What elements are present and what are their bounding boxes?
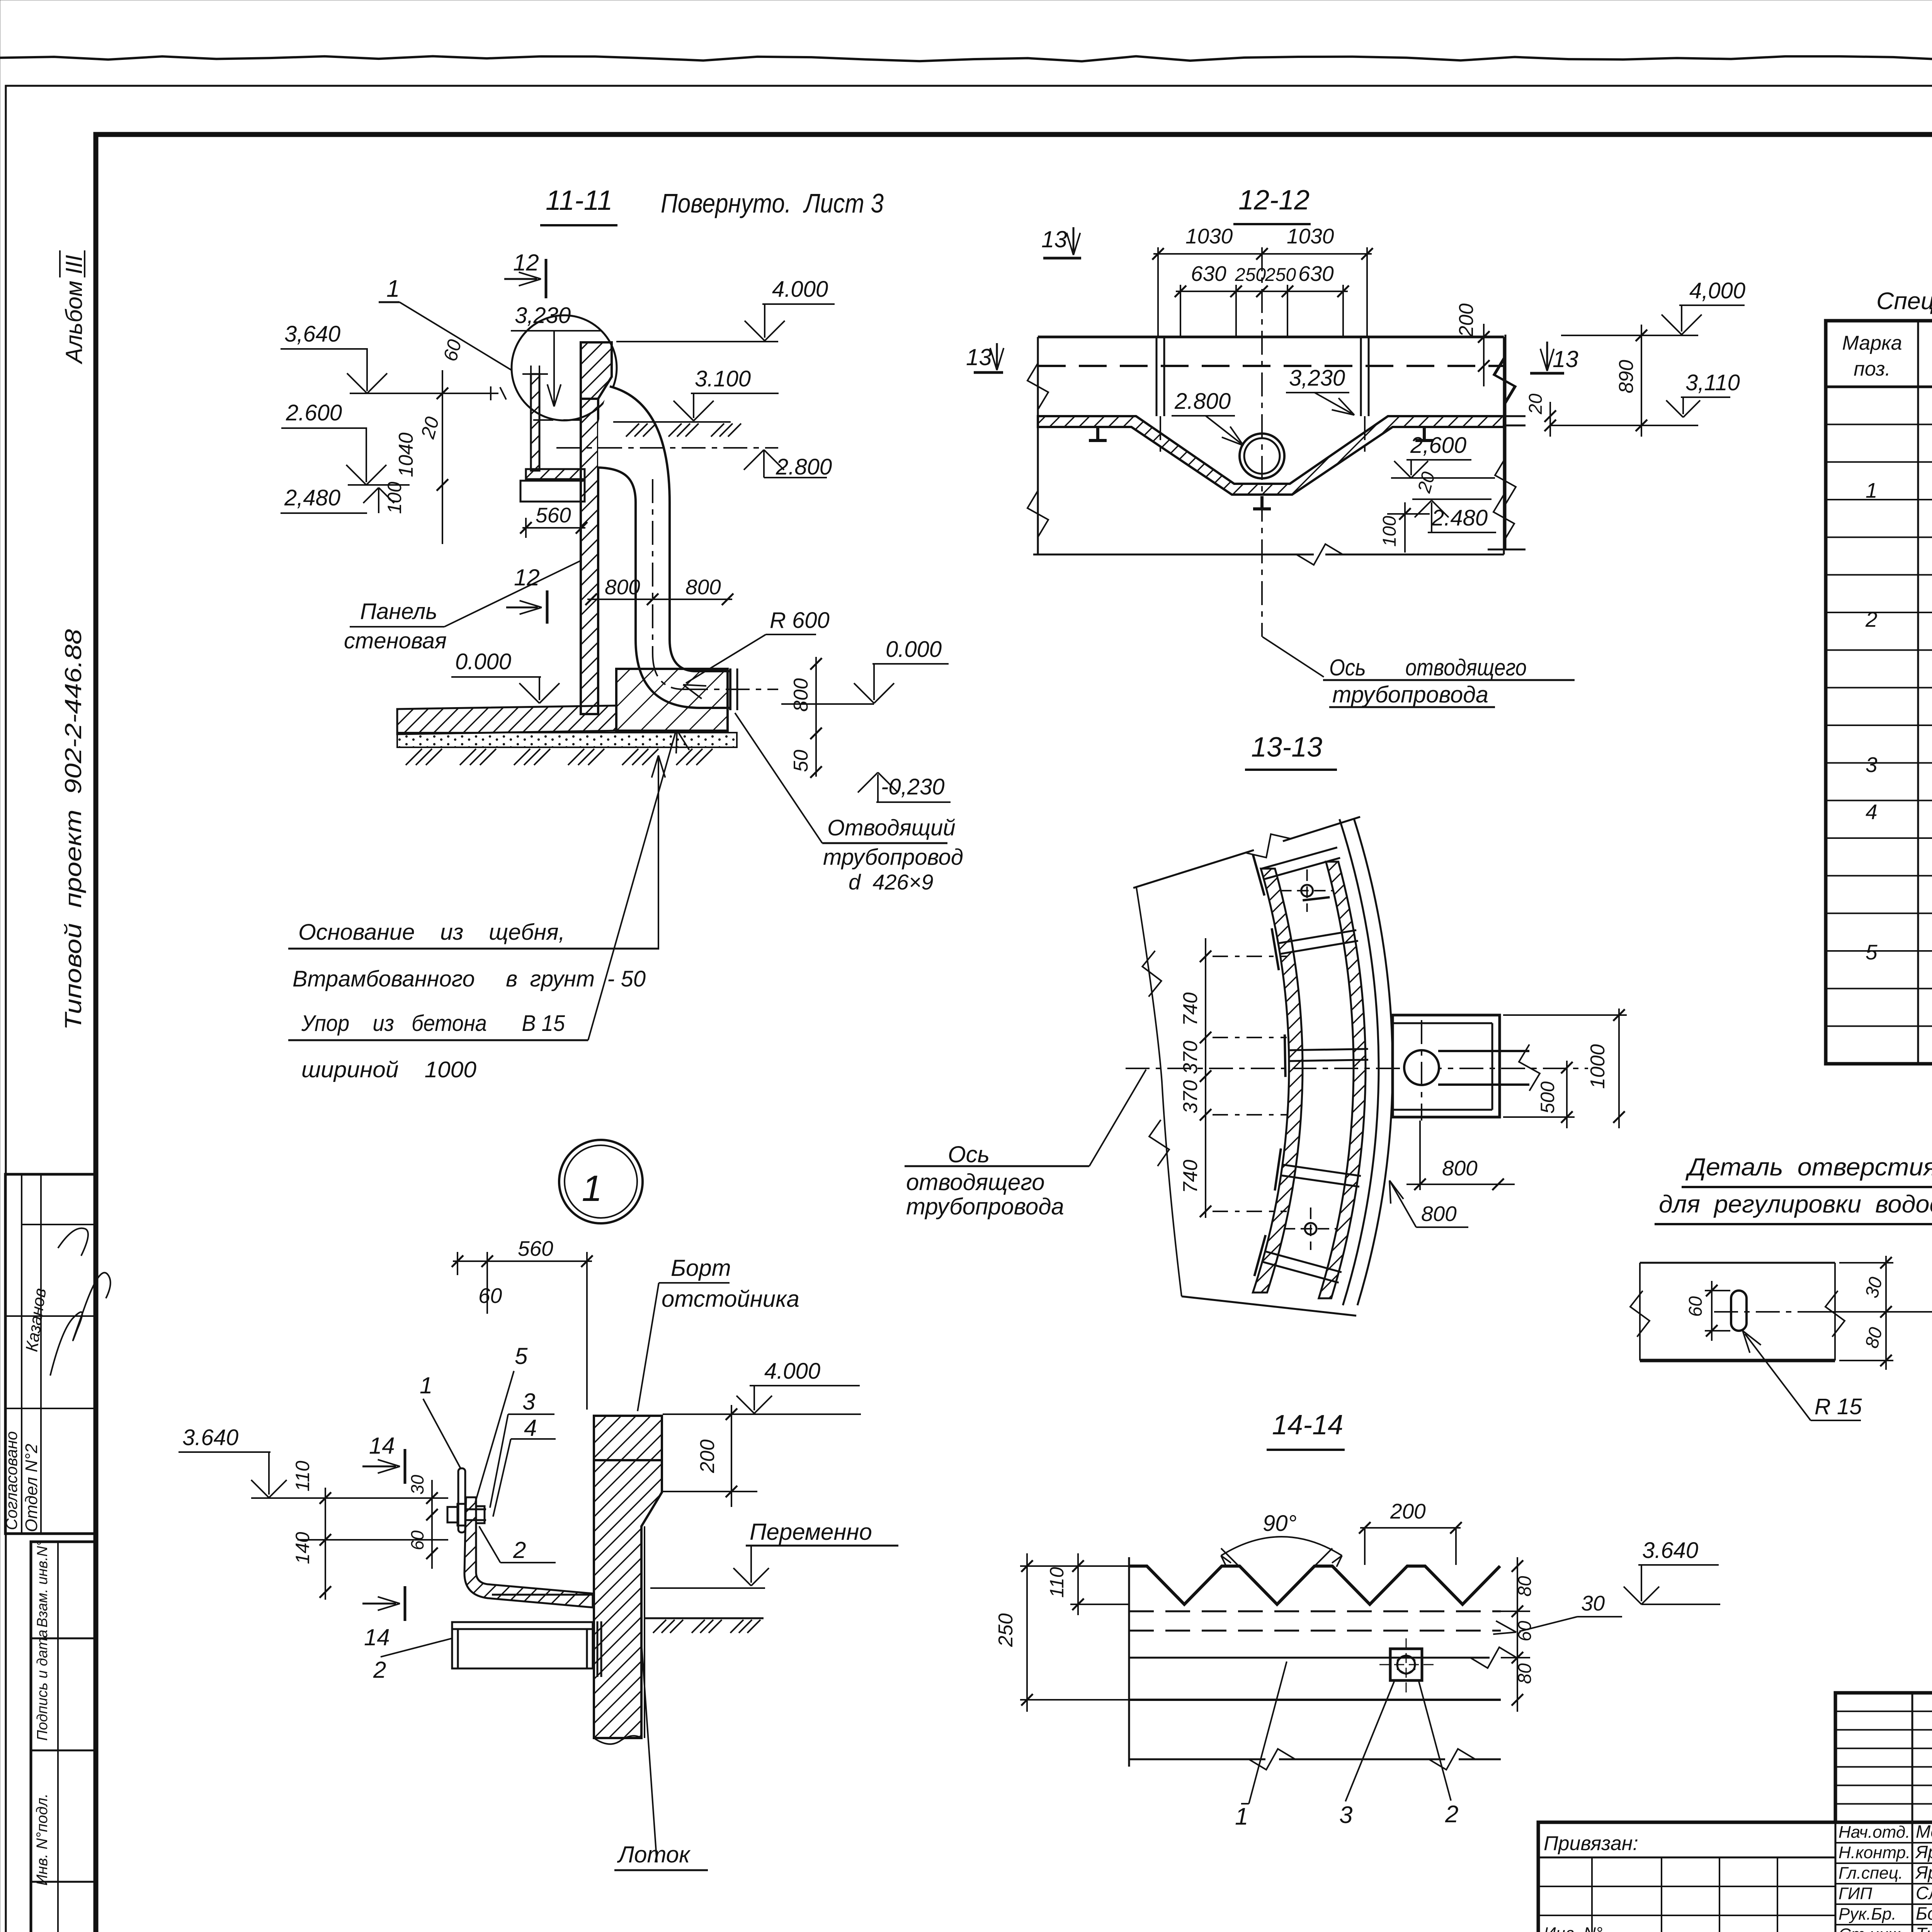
trough lower support plate [520,481,585,502]
leader from shchebnya note to base layer [658,758,659,949]
svg-text:Гл.спец.: Гл.спец. [1838,1864,1903,1883]
svg-text:Тюрина: Тюрина [1916,1924,1932,1932]
svg-text:Нач.отд.: Нач.отд. [1838,1823,1910,1842]
detail 1 lower support band [452,1622,593,1629]
svg-text:13: 13 [1041,226,1067,252]
svg-text:4.000: 4.000 [772,277,828,302]
detail hole left edge break [1639,1263,1641,1361]
svg-text:3: 3 [1339,1802,1352,1828]
detail 1 curb top block hatched [594,1416,662,1460]
svg-text:90°: 90° [1263,1511,1297,1536]
14-14 bolt hex and circle [1397,1656,1415,1673]
spec table row lines [1826,423,1932,425]
13-13 wall outer face hatched band [1319,862,1366,1298]
spec table column lines [1917,321,1919,1064]
pipe axis 2.800 centerline upper [556,447,778,449]
dim 630 250 250 630 [1176,291,1348,292]
water level dashed line in trough [533,419,580,421]
svg-text:890: 890 [1615,360,1638,393]
svg-text:1: 1 [1866,478,1878,502]
svg-text:4.000: 4.000 [764,1359,820,1384]
14-14 left edge line [1128,1557,1130,1767]
svg-text:3: 3 [1866,753,1878,777]
svg-text:100: 100 [1379,516,1400,547]
14-14 plate bottom line [1129,1699,1501,1701]
svg-text:250: 250 [1235,265,1266,285]
svg-text:13: 13 [966,344,992,370]
svg-text:250: 250 [1265,265,1296,285]
detail 1 channel below [452,1629,593,1668]
svg-text:Привязан:: Привязан: [1544,1832,1638,1855]
svg-text:30: 30 [1581,1591,1605,1615]
svg-text:5: 5 [1866,940,1878,964]
approval signature squiggle [50,1273,111,1376]
cross ticks at glass top [522,373,548,375]
12-12 right slab stubs [1504,415,1526,417]
svg-text:2.800: 2.800 [1174,389,1231,414]
svg-text:1: 1 [420,1372,432,1398]
svg-text:800: 800 [605,575,640,599]
detail hole slot [1731,1291,1747,1331]
svg-text:0.000: 0.000 [455,649,511,674]
12-12 centerline vertical [1261,247,1263,637]
svg-text:Ярошенко: Ярошенко [1915,1842,1932,1862]
svg-text:200: 200 [696,1439,719,1473]
svg-text:Ярошенко: Ярошенко [1915,1862,1932,1883]
pipe bell mouth white fill [598,386,670,502]
pipe centerline vertical [652,479,653,653]
title block upper small table [1835,1693,1932,1822]
svg-text:800: 800 [1421,1202,1457,1226]
12-12 right wall edge [1505,335,1507,549]
svg-text:140: 140 [292,1532,313,1564]
glass plate (pos.1) on wall [531,374,539,471]
svg-text:740: 740 [1179,992,1202,1026]
12-12 left edge with breaks [1037,337,1039,554]
svg-text:3.640: 3.640 [182,1425,238,1450]
svg-text:2.800: 2.800 [776,454,832,480]
svg-text:4,000: 4,000 [1689,278,1745,303]
14-14 sawtooth weir edge [1129,1566,1500,1604]
svg-text:Согласовано: Согласовано [2,1431,20,1530]
svg-text:Инв. N°подл.: Инв. N°подл. [34,1793,51,1886]
dim 800 800 on 11-11 [587,599,732,600]
12-12 left vertical joint pair [1156,337,1158,416]
ground hatching under base [406,749,422,765]
pipe bell inner curve [598,468,636,502]
12-12 pipe circle in trough [1240,434,1284,478]
svg-text:60: 60 [1685,1296,1706,1317]
dim 1030 1030 [1153,253,1372,255]
svg-text:1030: 1030 [1287,224,1334,248]
svg-text:Отдел N°2: Отдел N°2 [22,1444,41,1532]
detail 1 wall bottom break [594,1736,641,1744]
pipe vertical run white fill [636,502,670,639]
13-13 extension lines to joints [1213,956,1287,957]
svg-text:Взам. инв.N°: Взам. инв.N° [34,1540,51,1628]
svg-text:60: 60 [407,1530,427,1550]
12-12 anchor T center bottom [1260,496,1264,509]
pipe lower bend outer arc R600 [636,639,700,708]
svg-text:2: 2 [1865,607,1878,631]
13-13 wall inner face hatched band [1253,869,1303,1293]
wall panel hatched [581,399,598,714]
vertical dim line 11-11 left [442,370,443,544]
12-12 anchor T right [1423,428,1426,440]
svg-text:2,600: 2,600 [1410,433,1466,458]
svg-text:ГИП: ГИП [1838,1884,1872,1903]
13-13 outlet box inner lines [1393,1022,1492,1024]
svg-text:R 600: R 600 [770,608,830,633]
12-12 bottom boundary line [1033,554,1314,556]
svg-text:Лоток: Лоток [617,1842,691,1867]
detail 1 glass plate pos1 [458,1468,465,1532]
14-14 bottom boundary with breaks [1129,1759,1265,1760]
svg-text:500: 500 [1537,1081,1558,1114]
svg-text:Марка: Марка [1842,332,1902,354]
pipe lower bend inner arc [670,639,696,671]
detail hole right edge break [1834,1263,1836,1361]
svg-text:800: 800 [685,575,721,599]
svg-text:2: 2 [513,1537,526,1563]
svg-text:1000: 1000 [1587,1044,1609,1089]
svg-text:Инв. N°: Инв. N° [1544,1924,1602,1932]
svg-text:отводящего: отводящего [906,1169,1045,1195]
sheet torn paper edge top [0,56,1932,61]
pipe vertical outer lines [634,502,637,639]
svg-text:Подпись и дата: Подпись и дата [34,1630,51,1741]
svg-text:200: 200 [1390,1499,1426,1523]
13-13 top panel tick [1303,897,1330,900]
svg-text:Типовой проект 902-2-446.88: Типовой проект 902-2-446.88 [60,629,86,1030]
svg-text:630: 630 [1191,262,1226,286]
svg-text:1: 1 [582,1168,602,1209]
svg-text:d 426×9: d 426×9 [849,870,934,894]
pipe lower bend white fill [636,639,730,708]
svg-text:2: 2 [1445,1801,1458,1828]
13-13 bottom cut edge [1182,1296,1356,1316]
svg-text:3.100: 3.100 [695,366,751,391]
svg-text:Ст.инж.: Ст.инж. [1838,1925,1905,1932]
svg-text:370: 370 [1179,1041,1202,1074]
svg-text:3,110: 3,110 [1685,370,1740,395]
svg-text:2,480: 2,480 [284,485,340,510]
leader from upor note to thrust block [588,733,675,1040]
svg-text:30: 30 [407,1475,427,1495]
svg-text:Ось: Ось [948,1141,990,1167]
13-13 outlet box outer [1393,1015,1500,1117]
svg-text:1030: 1030 [1185,224,1233,248]
13-13 left boundary curve with breaks [1136,888,1182,1296]
pipe bell outer curve [610,386,670,502]
leader from 3-line label to 13-13 centerline [1089,1070,1146,1166]
svg-text:800: 800 [1442,1156,1478,1180]
svg-text:4: 4 [524,1415,537,1441]
14-14 bolt square [1390,1649,1422,1680]
detail circle on 11-11 [512,315,617,420]
ground line detail 1 [644,1617,764,1619]
cross ticks on 3.640 level line [490,386,492,400]
svg-text:Борт: Борт [671,1255,731,1281]
title block person rows [1835,1842,1932,1844]
13-13 panel joints [1278,930,1356,943]
svg-text:Деталь отверстия: Деталь отверстия [1685,1153,1932,1181]
svg-text:Основание из щебня,: Основание из щебня, [298,920,565,945]
svg-text:2: 2 [373,1657,386,1683]
svg-text:560: 560 [536,503,571,527]
12-12 right edge with breaks [1503,337,1505,554]
13-13 dim 800 below box [1419,1121,1421,1190]
13-13 partial joints near cut ends [1261,847,1337,869]
title block small revision cells [1591,1857,1593,1932]
svg-text:11-11: 11-11 [546,185,612,216]
detail hole strip bottom line [1640,1359,1835,1362]
pipe horizontal outlet stub [696,670,730,672]
svg-text:12-12: 12-12 [1238,185,1310,216]
svg-text:Альбом III: Альбом III [61,255,87,364]
svg-text:3.640: 3.640 [1642,1538,1698,1563]
13-13 top cut edge [1133,850,1254,888]
svg-text:14: 14 [369,1433,395,1459]
svg-text:13: 13 [1553,346,1578,372]
14-14 dashed lines under teeth [1129,1611,1501,1612]
svg-text:Славянский: Славянский [1916,1883,1932,1903]
thrust block (upor) concrete hatched [616,669,728,731]
svg-text:2.600: 2.600 [286,400,342,425]
13-13 pipe horizontal lines [1438,1050,1529,1052]
13-13 centerline horizontal [1126,1068,1588,1069]
12-12 right vertical joint pair [1360,337,1362,416]
detail 1 wall below hatched [594,1460,662,1738]
detail 1 trough bottom plate [492,1594,593,1596]
12-12 hidden dashed line [1038,365,1504,367]
svg-text:250: 250 [995,1613,1017,1647]
spec table header bottom line [1826,386,1932,388]
13-13 panel mid bolts with centerline crosses [1301,885,1313,896]
svg-text:200: 200 [1455,303,1478,337]
12-12 anchor T left [1096,428,1099,440]
detail 1 wall face double line [644,1526,645,1738]
svg-text:трубопровода: трубопровода [1332,682,1488,707]
svg-text:трубопровода: трубопровода [906,1194,1064,1219]
svg-text:0.000: 0.000 [886,637,942,662]
svg-text:трубопровод: трубопровод [823,845,963,870]
svg-text:Повернуто. Лист 3: Повернуто. Лист 3 [661,188,884,218]
svg-text:Переменно: Переменно [750,1519,872,1545]
svg-text:Ось отводящего: Ось отводящего [1329,655,1527,680]
svg-text:370: 370 [1179,1080,1202,1114]
svg-text:110: 110 [1046,1567,1068,1598]
svg-text:поз.: поз. [1854,358,1891,380]
svg-text:13-13: 13-13 [1251,732,1322,763]
svg-text:R 15: R 15 [1815,1394,1862,1419]
svg-text:5: 5 [515,1343,528,1369]
detail 1 bracket vertical leg hatched [464,1497,593,1607]
svg-text:Панель: Панель [360,599,437,624]
12-12 floor slab hatched band (V-trough) [1038,416,1504,495]
svg-text:740: 740 [1179,1160,1202,1193]
side stamp lower (inventory) [31,1542,96,1932]
svg-text:1: 1 [1235,1803,1248,1830]
trough bottom slab hatched [526,469,585,479]
svg-text:560: 560 [518,1236,553,1260]
detail hole strip top line [1640,1262,1835,1264]
svg-text:-0,230: -0,230 [881,774,944,799]
label os otvodyashchego truboprovoda (under 12-12) [1262,637,1324,677]
svg-text:110: 110 [292,1461,313,1492]
svg-text:3,640: 3,640 [284,321,340,347]
12-12 top slab line [1038,336,1504,338]
floor slab hatched left [397,706,616,734]
spec table outer border [1826,321,1932,1064]
pipe centerline bend and horizontal [653,653,684,689]
svg-text:для регулировки водослива: для регулировки водослива [1659,1190,1932,1218]
detail 1 bolt head and washers [447,1507,457,1522]
detail 1 circle callout [559,1140,643,1223]
wall top cap hatched [581,342,612,399]
svg-text:630: 630 [1298,262,1334,286]
svg-text:20: 20 [1526,393,1546,415]
rubble base layer dotted [397,733,737,747]
detail hole centerline [1714,1311,1801,1313]
title block main area border [1538,1822,1932,1932]
svg-text:4: 4 [1866,800,1878,824]
svg-text:Н.контр.: Н.контр. [1838,1843,1910,1862]
svg-text:отстойника: отстойника [662,1286,799,1312]
svg-text:Спецификация узла 1 н: Спецификация узла 1 на один отстойник. [1876,288,1932,315]
13-13 pipe circle [1404,1050,1439,1085]
svg-text:Болотова: Болотова [1916,1903,1932,1923]
svg-text:стеновая: стеновая [344,628,447,653]
svg-text:3,230: 3,230 [1289,366,1345,391]
svg-text:Рук.Бр.: Рук.Бр. [1838,1905,1896,1923]
svg-text:Втрамбованного в грунт -: Втрамбованного в грунт - 50 [293,966,646,992]
svg-text:Упор из бетона В 15: Упор из бетона В 15 [301,1011,565,1036]
svg-text:Отводящий: Отводящий [827,815,956,840]
svg-text:100: 100 [384,481,405,514]
svg-text:800: 800 [790,678,812,712]
level 2.800 pointer on 11-11 [744,450,764,470]
svg-text:14-14: 14-14 [1272,1410,1343,1440]
svg-text:1040: 1040 [395,432,417,477]
svg-text:12: 12 [513,250,539,276]
13-13 left dim chain 740 370 370 740 [1205,938,1206,1218]
svg-text:Мешалкин: Мешалкин [1916,1821,1932,1842]
svg-text:1: 1 [386,276,400,302]
13-13 box vertical centerline [1421,1020,1422,1121]
14-14 mid line [1129,1657,1490,1659]
svg-text:3: 3 [522,1389,535,1415]
svg-text:14: 14 [364,1624,390,1650]
13-13 outer shell arcs [1340,819,1379,1305]
svg-text:50: 50 [790,750,812,772]
detail 1 wall-side plate [597,1621,599,1677]
detail 1 dim 560 [453,1260,592,1262]
svg-text:60: 60 [478,1284,502,1308]
svg-text:шириной 1000: шириной 1000 [301,1057,476,1082]
side stamp upper (approvals) [5,1174,96,1534]
